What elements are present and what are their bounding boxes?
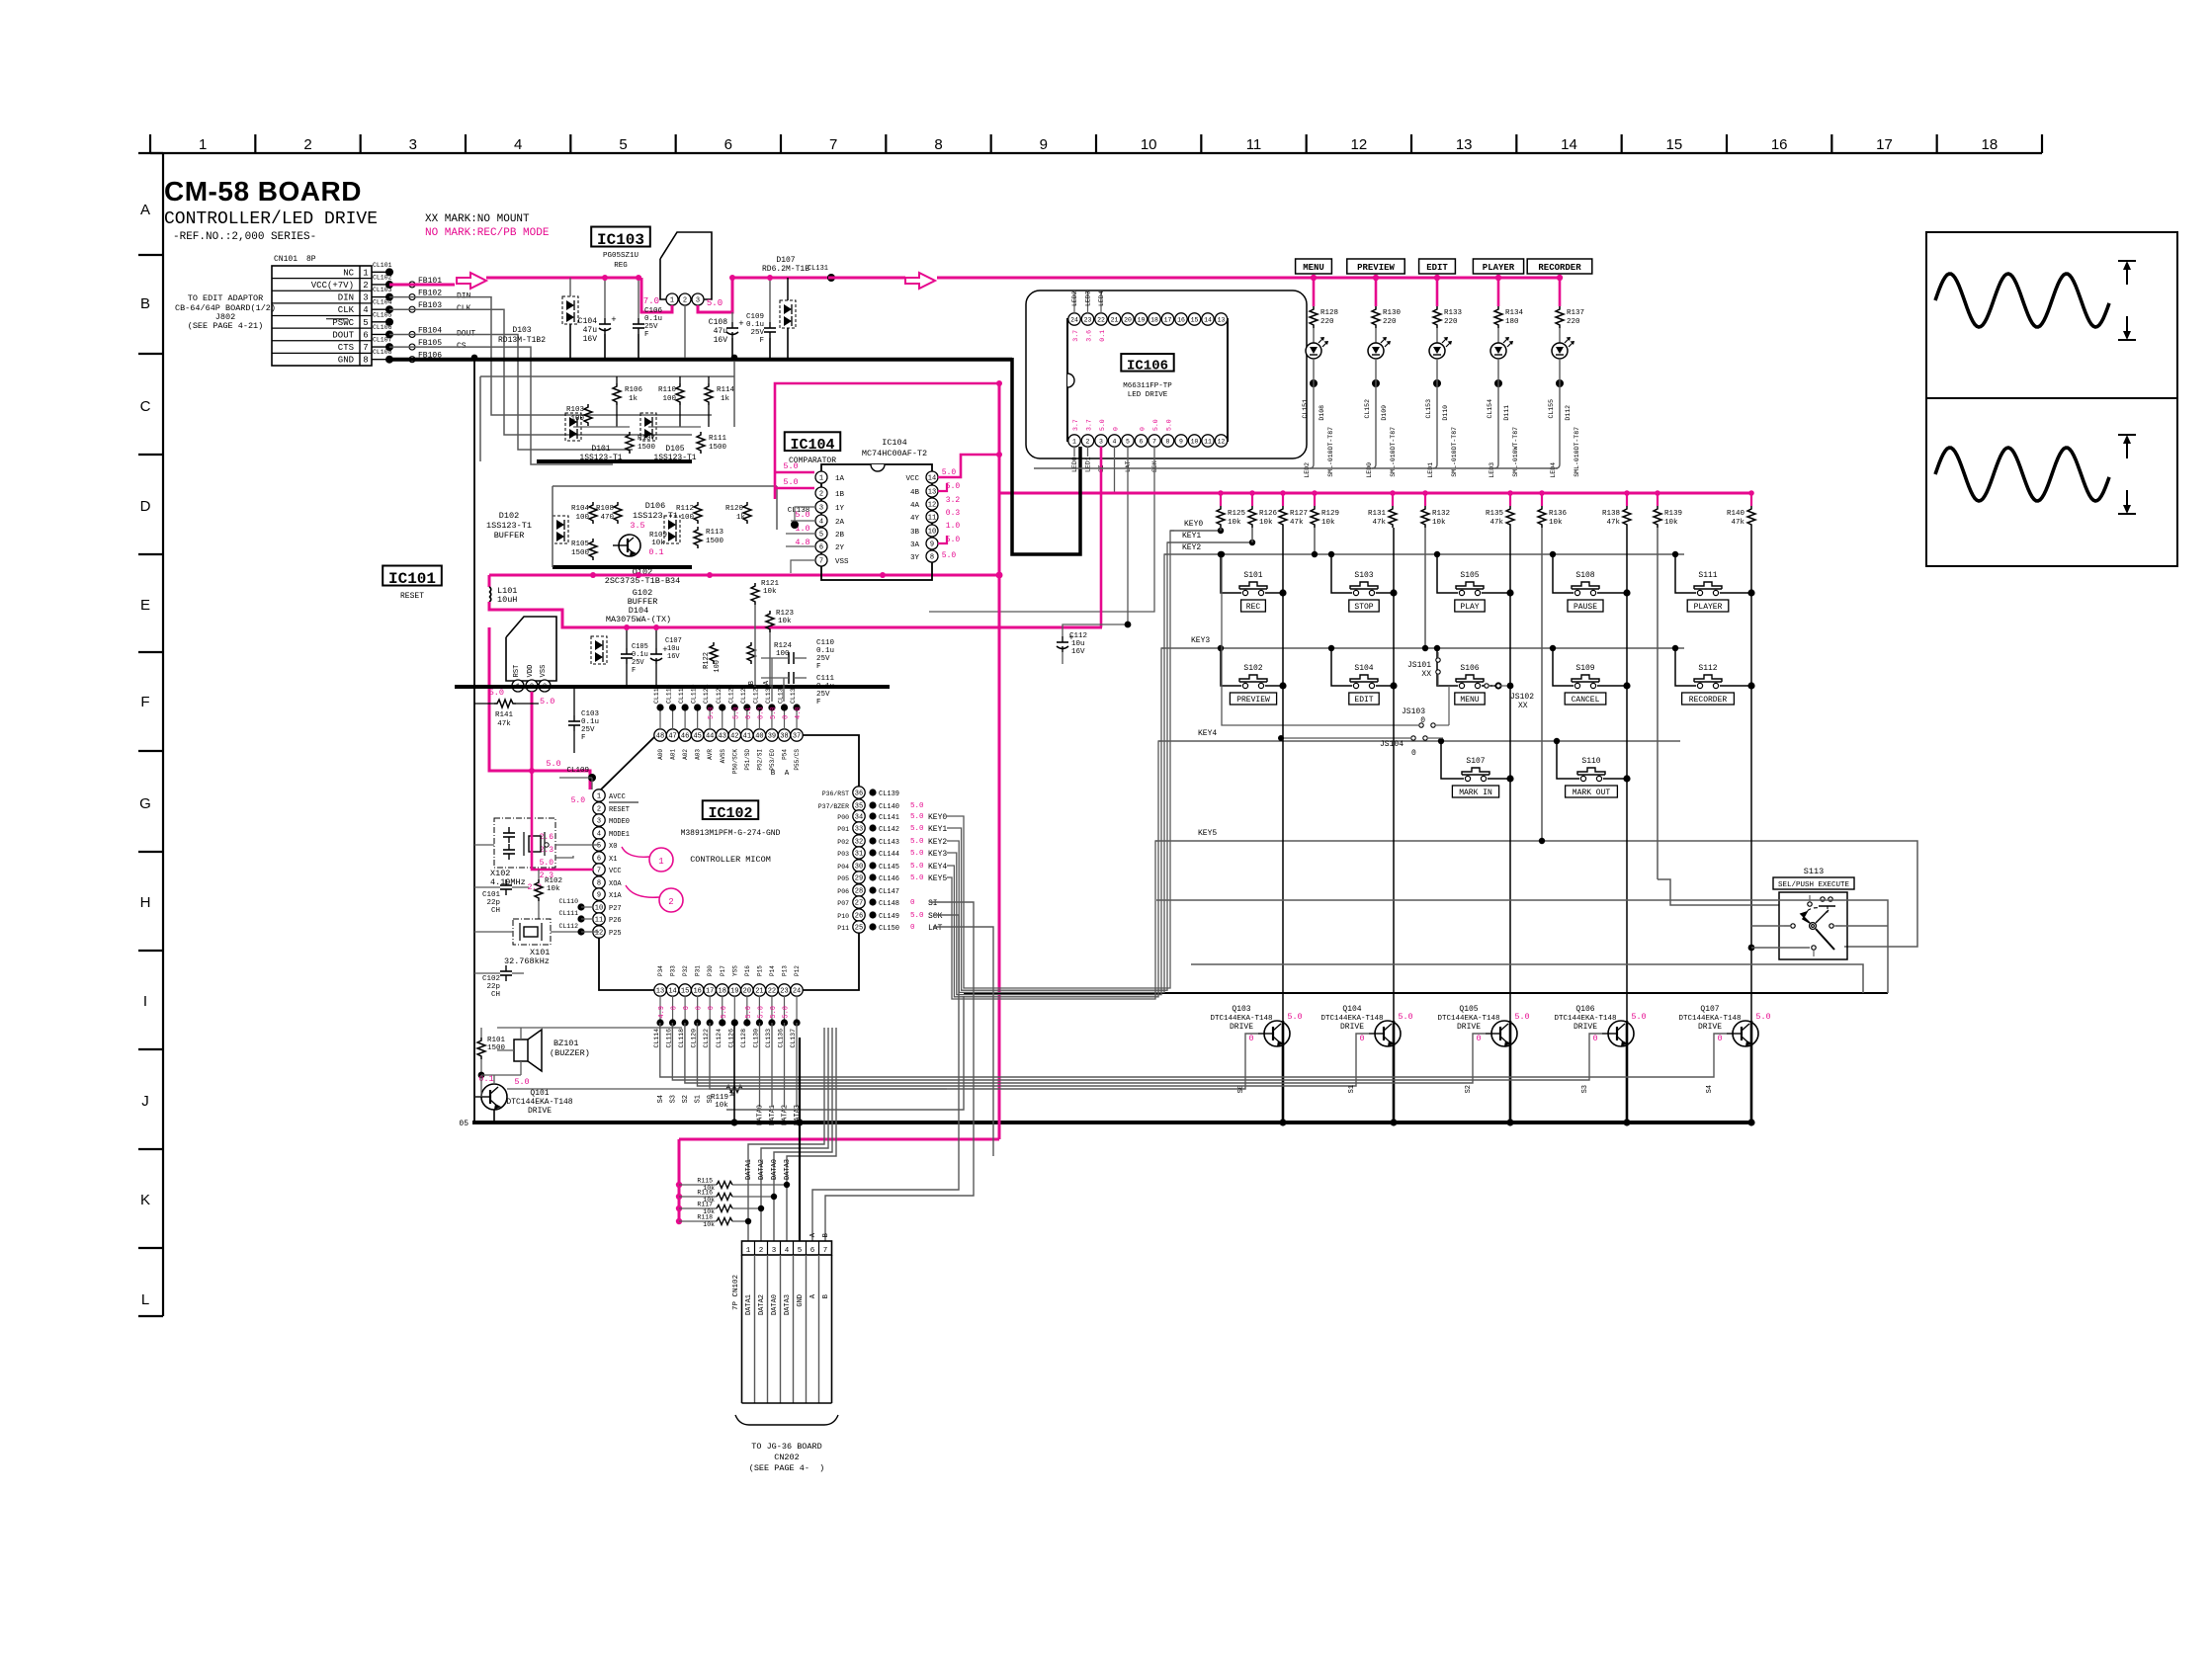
- svg-text:6: 6: [1140, 438, 1144, 445]
- svg-text:F: F: [581, 734, 586, 742]
- svg-text:X1: X1: [609, 856, 617, 864]
- transistor Q103: [1210, 1005, 1302, 1046]
- svg-text:13: 13: [928, 489, 936, 497]
- svg-text:5.0: 5.0: [540, 697, 554, 706]
- wires DATA verticals: [730, 1023, 830, 1241]
- svg-text:LED0: LED0: [1366, 462, 1373, 478]
- svg-text:P32: P32: [682, 965, 689, 976]
- svg-text:0.1u: 0.1u: [816, 647, 834, 655]
- svg-text:0.1: 0.1: [745, 706, 753, 719]
- switch S106 MENU: [1434, 645, 1502, 705]
- LED column MENU: [1296, 259, 1332, 274]
- capacitor C108: [709, 312, 744, 358]
- svg-text:25: 25: [855, 925, 863, 933]
- resistor R134: [1494, 306, 1524, 328]
- svg-text:CL134: CL134: [778, 684, 785, 704]
- svg-text:CL111: CL111: [558, 910, 578, 917]
- label G102 buffer: [628, 588, 658, 607]
- IC102 pin 35: [818, 799, 924, 811]
- svg-text:2Y: 2Y: [835, 544, 845, 552]
- svg-text:+: +: [738, 319, 743, 329]
- svg-text:X0: X0: [609, 843, 617, 851]
- svg-text:P26: P26: [609, 917, 622, 925]
- svg-text:3B: 3B: [910, 529, 920, 537]
- svg-text:CL144: CL144: [879, 851, 899, 859]
- svg-text:0.1: 0.1: [648, 547, 663, 557]
- wire VCC magenta pin7: [532, 771, 593, 870]
- svg-text:LED4: LED4: [1550, 462, 1557, 478]
- svg-text:A00: A00: [657, 749, 664, 760]
- IC102 pin 43: [716, 684, 728, 763]
- svg-text:46: 46: [681, 733, 689, 741]
- svg-text:(BUZZER): (BUZZER): [550, 1048, 590, 1058]
- svg-text:21: 21: [755, 988, 763, 996]
- svg-text:5.0: 5.0: [1631, 1012, 1646, 1022]
- ferrite bead FB104: [409, 326, 475, 338]
- wire buffer sides: [552, 486, 553, 567]
- svg-text:SML-010DT-T87: SML-010DT-T87: [1390, 427, 1397, 477]
- svg-text:R112: R112: [676, 505, 694, 513]
- svg-text:R135: R135: [1486, 510, 1504, 518]
- wire cluster mid: [573, 426, 630, 428]
- svg-text:XX MARK:NO MOUNT: XX MARK:NO MOUNT: [425, 213, 530, 225]
- svg-text:P11: P11: [837, 925, 849, 932]
- svg-text:CL154: CL154: [1487, 399, 1493, 419]
- wire 7.0 in: [641, 278, 672, 312]
- svg-text:YSS: YSS: [731, 965, 738, 976]
- svg-text:2: 2: [683, 297, 687, 305]
- svg-text:4: 4: [819, 519, 823, 527]
- IC104 pin 4: [815, 515, 845, 527]
- thick gnd elbow: [1012, 358, 1080, 554]
- svg-text:AVCC: AVCC: [609, 793, 626, 801]
- svg-text:P50/SCK: P50/SCK: [731, 749, 738, 775]
- svg-text:DATA2: DATA2: [758, 1159, 766, 1180]
- svg-text:R141: R141: [495, 711, 514, 719]
- svg-text:DRIVE: DRIVE: [1457, 1023, 1481, 1032]
- svg-text:SML-010DT-T87: SML-010DT-T87: [1574, 427, 1580, 477]
- svg-text:NO MARK:REC/PB MODE: NO MARK:REC/PB MODE: [425, 227, 550, 239]
- svg-text:3.7: 3.7: [1072, 330, 1079, 342]
- svg-text:7P CN102: 7P CN102: [732, 1275, 740, 1310]
- node CL110: [558, 898, 593, 911]
- svg-text:RD13M-T1B2: RD13M-T1B2: [498, 336, 546, 345]
- IC102 pin 12: [593, 926, 622, 938]
- svg-text:10k: 10k: [763, 588, 777, 596]
- svg-text:3: 3: [696, 297, 700, 305]
- svg-text:MODE0: MODE0: [609, 818, 630, 826]
- IC102 pin 46: [678, 684, 691, 759]
- magenta rail B: [489, 602, 1102, 627]
- svg-text:CL113: CL113: [653, 684, 660, 704]
- svg-text:F: F: [816, 663, 821, 671]
- svg-text:CL151: CL151: [1302, 399, 1309, 419]
- svg-text:20: 20: [743, 988, 751, 996]
- svg-text:9: 9: [597, 892, 601, 900]
- svg-text:DATA1: DATA1: [745, 1159, 753, 1180]
- svg-text:2B: 2B: [835, 532, 845, 540]
- svg-text:17: 17: [1876, 136, 1893, 153]
- IC103 subtitle: [603, 252, 638, 270]
- svg-text:44: 44: [706, 733, 714, 741]
- svg-text:CN101: CN101: [274, 255, 298, 264]
- svg-text:R128: R128: [1320, 309, 1338, 317]
- connector note: [749, 1442, 825, 1473]
- svg-text:EDIT: EDIT: [1354, 696, 1373, 705]
- svg-text:D106: D106: [645, 501, 665, 511]
- svg-text:0: 0: [683, 1006, 691, 1010]
- node CL138: [788, 507, 814, 529]
- IC103 pin 2: [679, 293, 691, 305]
- IC106 pin 24: [1068, 313, 1080, 325]
- svg-text:6: 6: [597, 856, 601, 864]
- svg-text:D102: D102: [499, 511, 519, 521]
- IC104 pin 10: [910, 525, 938, 537]
- IC102 pin 3: [593, 814, 630, 826]
- wire column short: [1312, 528, 1779, 905]
- svg-text:CL147: CL147: [879, 888, 899, 896]
- svg-text:22p: 22p: [486, 983, 500, 991]
- svg-text:0: 0: [671, 1006, 679, 1010]
- wire column x1646: [1626, 528, 1628, 1021]
- IC106 bottom pin labels: [1071, 419, 1173, 472]
- IC102 pin 19: [727, 965, 740, 1048]
- svg-text:25V: 25V: [644, 323, 658, 331]
- svg-text:5.0: 5.0: [732, 706, 740, 719]
- svg-text:8: 8: [1166, 438, 1170, 445]
- wire RECORDER drop: [1557, 275, 1563, 306]
- wire SI magenta: [1100, 447, 1103, 627]
- svg-text:C102: C102: [482, 975, 500, 983]
- svg-text:XOA: XOA: [609, 880, 622, 888]
- svg-text:2: 2: [363, 281, 368, 291]
- wire IC103 pin2 gnd: [684, 305, 686, 358]
- IC106 pin 6: [1135, 435, 1147, 447]
- svg-text:5.0: 5.0: [910, 838, 924, 846]
- ferrite bead FB106: [409, 352, 442, 363]
- thick ground row F: [455, 685, 890, 689]
- svg-text:1Y: 1Y: [835, 505, 845, 513]
- svg-text:45: 45: [693, 733, 701, 741]
- switch S104 EDIT: [1328, 645, 1398, 705]
- svg-text:CL127: CL127: [740, 684, 747, 704]
- svg-text:-REF.NO.:2,000 SERIES-: -REF.NO.:2,000 SERIES-: [173, 231, 316, 243]
- svg-text:A02: A02: [682, 749, 689, 760]
- svg-text:3.5: 3.5: [630, 521, 644, 531]
- svg-text:M66311FP-TP: M66311FP-TP: [1123, 382, 1172, 390]
- svg-text:R129: R129: [1321, 510, 1339, 518]
- wire y976: [1191, 964, 1863, 993]
- IC102 label: [703, 800, 759, 819]
- svg-text:P27: P27: [609, 905, 622, 913]
- svg-text:15: 15: [1191, 316, 1199, 323]
- svg-text:I: I: [143, 993, 147, 1010]
- svg-text:5: 5: [597, 843, 601, 851]
- svg-text:22: 22: [1097, 316, 1105, 323]
- svg-text:D101: D101: [591, 445, 610, 454]
- svg-text:36: 36: [855, 790, 863, 798]
- svg-text:VCC: VCC: [609, 868, 622, 875]
- svg-text:KEY4: KEY4: [1198, 729, 1217, 738]
- svg-text:CL115: CL115: [666, 684, 673, 704]
- svg-text:10k: 10k: [1228, 519, 1241, 527]
- wire KEY5 route: [947, 841, 1159, 999]
- svg-text:0: 0: [783, 715, 791, 719]
- svg-text:IC106: IC106: [1127, 358, 1168, 374]
- svg-text:8: 8: [934, 136, 942, 153]
- svg-text:DTC144EKA-T148: DTC144EKA-T148: [506, 1098, 572, 1107]
- svg-text:0: 0: [1411, 749, 1416, 758]
- wire cluster sides: [479, 376, 481, 461]
- svg-text:25V: 25V: [750, 329, 764, 337]
- svg-text:5.0: 5.0: [910, 813, 924, 821]
- svg-text:5.0: 5.0: [910, 825, 924, 833]
- wire return y1123: [726, 996, 964, 1110]
- svg-text:PLAY: PLAY: [1460, 603, 1479, 612]
- resistor R140: [1727, 490, 1755, 528]
- svg-text:DTC144EKA-T148: DTC144EKA-T148: [1210, 1015, 1272, 1023]
- svg-text:1: 1: [1072, 438, 1076, 445]
- note NO MOUNT: [425, 213, 550, 239]
- svg-text:9: 9: [930, 541, 934, 549]
- wire collector Q104: [1390, 1021, 1397, 1126]
- svg-text:PG05SZ1U: PG05SZ1U: [603, 252, 638, 260]
- label R109: [649, 532, 667, 547]
- svg-text:CL139: CL139: [879, 790, 899, 798]
- svg-text:Q105: Q105: [1459, 1005, 1478, 1014]
- crystal X102: [474, 818, 599, 887]
- svg-text:X1A: X1A: [609, 892, 622, 900]
- svg-text:DTC144EKA-T148: DTC144EKA-T148: [1437, 1015, 1499, 1023]
- wire column x1410: [1393, 528, 1395, 1021]
- wire A route: [812, 915, 959, 1241]
- svg-text:DATA0: DATA0: [771, 1294, 779, 1315]
- svg-text:XX: XX: [1421, 670, 1431, 679]
- node CL108: [372, 349, 393, 364]
- IC104 magenta pins right: [938, 455, 999, 560]
- svg-text:5.0: 5.0: [1099, 419, 1106, 431]
- D104 pin 2: [526, 680, 538, 692]
- svg-text:LED0: LED0: [1071, 457, 1078, 472]
- svg-text:39: 39: [768, 733, 776, 741]
- svg-text:S112: S112: [1698, 664, 1717, 673]
- S113 label: [1773, 867, 1854, 889]
- diode D101: [565, 413, 623, 462]
- transistor Q102: [613, 521, 664, 557]
- IC102 pin 26: [837, 909, 942, 921]
- wire GND bus: [389, 358, 1012, 362]
- svg-text:5.0: 5.0: [783, 461, 798, 471]
- IC106 pin 16: [1175, 313, 1187, 325]
- regulator IC103 body: [660, 232, 712, 299]
- svg-text:18: 18: [1150, 316, 1158, 323]
- wire LED2: [1304, 359, 1314, 478]
- svg-text:3: 3: [1099, 438, 1103, 445]
- IC106 pin 10: [1188, 435, 1200, 447]
- svg-text:32.768kHz: 32.768kHz: [504, 956, 550, 966]
- svg-text:S109: S109: [1575, 664, 1594, 673]
- label B A under pins: [771, 770, 790, 778]
- svg-text:7: 7: [829, 136, 837, 153]
- svg-text:CL150: CL150: [879, 925, 899, 933]
- IC106 pin 2: [1081, 435, 1093, 447]
- resistor R127: [1279, 490, 1308, 528]
- svg-text:REC: REC: [1246, 603, 1261, 612]
- svg-text:DATA2: DATA2: [758, 1294, 766, 1315]
- switch S107 MARK IN: [1438, 738, 1514, 797]
- svg-text:15: 15: [681, 988, 689, 996]
- svg-text:16: 16: [1771, 136, 1788, 153]
- svg-text:M38913M1PFM-G-274-GND: M38913M1PFM-G-274-GND: [681, 829, 781, 838]
- note to edit adaptor: [175, 293, 276, 331]
- svg-text:P37/BZER: P37/BZER: [818, 803, 849, 810]
- IC104 pin 8: [910, 550, 938, 562]
- IC102 pin 44: [703, 684, 716, 759]
- svg-text:CL146: CL146: [879, 875, 899, 883]
- svg-text:S4: S4: [657, 1095, 665, 1103]
- svg-text:Q104: Q104: [1342, 1005, 1361, 1014]
- svg-text:4A: 4A: [910, 502, 920, 510]
- svg-text:R119: R119: [711, 1094, 728, 1102]
- svg-text:CL143: CL143: [879, 839, 899, 847]
- resistor R141: [474, 700, 539, 728]
- IC106 group outline: [1026, 291, 1307, 458]
- IC106 pin 7: [1149, 435, 1160, 447]
- svg-text:14: 14: [1561, 136, 1577, 153]
- svg-text:1.0: 1.0: [946, 522, 961, 531]
- svg-text:10k: 10k: [1549, 519, 1563, 527]
- svg-text:RST: RST: [513, 665, 521, 678]
- svg-text:F: F: [140, 694, 149, 710]
- svg-text:S107: S107: [1466, 757, 1485, 766]
- IC103 label: [591, 227, 650, 247]
- IC102 pin 22: [765, 965, 778, 1048]
- node CL104: [372, 299, 393, 314]
- svg-text:CL137: CL137: [790, 1029, 797, 1048]
- resistor R124: [747, 642, 793, 664]
- svg-text:R116: R116: [697, 1190, 713, 1197]
- svg-text:CL123: CL123: [716, 684, 723, 704]
- svg-text:12: 12: [595, 930, 603, 938]
- svg-text:C105: C105: [632, 643, 648, 651]
- svg-text:10u: 10u: [1071, 640, 1085, 648]
- svg-text:0: 0: [1359, 1034, 1364, 1043]
- svg-text:IC102: IC102: [708, 805, 752, 822]
- svg-text:D103: D103: [512, 326, 531, 335]
- svg-text:S110: S110: [1581, 757, 1600, 766]
- wire VCC continue: [486, 277, 641, 280]
- LED column RECORDER: [1527, 259, 1592, 274]
- svg-text:CL130: CL130: [752, 1029, 759, 1048]
- svg-text:NC: NC: [343, 268, 354, 278]
- svg-text:5.0: 5.0: [1166, 419, 1173, 431]
- svg-text:DRIVE: DRIVE: [1230, 1023, 1253, 1032]
- svg-text:DRIVE: DRIVE: [1574, 1023, 1597, 1032]
- vertical bus magenta 5V: [996, 380, 1003, 1139]
- svg-text:22p: 22p: [486, 899, 500, 907]
- svg-text:0: 0: [1248, 1034, 1253, 1043]
- svg-text:GND: GND: [338, 356, 354, 366]
- IC102 pin 4: [593, 827, 630, 839]
- svg-text:0: 0: [708, 1006, 716, 1010]
- svg-text:2: 2: [668, 897, 673, 907]
- IC102 pin 34: [837, 810, 947, 822]
- resistor R103: [566, 404, 592, 426]
- svg-text:CL119: CL119: [691, 684, 698, 704]
- svg-text:CL136: CL136: [778, 1029, 785, 1048]
- wire LED4: [1550, 359, 1560, 478]
- IC102 pin 24: [790, 965, 803, 1048]
- svg-text:R113: R113: [706, 529, 724, 537]
- svg-text:4Y: 4Y: [910, 515, 920, 523]
- svg-text:DTC144EKA-T148: DTC144EKA-T148: [1554, 1015, 1616, 1023]
- svg-text:16: 16: [693, 988, 701, 996]
- svg-text:RECORDER: RECORDER: [1689, 696, 1728, 705]
- resistor R105: [571, 539, 597, 560]
- svg-text:14: 14: [928, 475, 936, 483]
- svg-text:16V: 16V: [714, 336, 728, 345]
- svg-text:C108: C108: [709, 318, 727, 327]
- IC102 pin 30: [837, 860, 947, 872]
- IC106 pin 18: [1149, 313, 1160, 325]
- svg-text:CL120: CL120: [691, 1029, 698, 1048]
- svg-text:5: 5: [819, 532, 823, 540]
- svg-text:S111: S111: [1698, 571, 1717, 580]
- zener pair D: [591, 636, 607, 664]
- svg-text:D110: D110: [1442, 405, 1449, 421]
- node CL112: [558, 923, 593, 936]
- svg-text:P10: P10: [837, 913, 849, 920]
- svg-text:AVR: AVR: [707, 749, 714, 760]
- svg-text:CL110: CL110: [558, 898, 578, 905]
- svg-text:43: 43: [719, 733, 726, 741]
- svg-text:J: J: [141, 1093, 149, 1110]
- svg-text:2SC3735-T1B-B34: 2SC3735-T1B-B34: [605, 576, 681, 586]
- svg-text:1: 1: [363, 268, 368, 278]
- wire key return: [964, 992, 1888, 994]
- IC102 pin 48: [653, 684, 666, 759]
- svg-text:P13: P13: [782, 965, 789, 976]
- svg-text:25V: 25V: [816, 691, 830, 699]
- svg-text:0.1u: 0.1u: [816, 683, 834, 691]
- IC104 pin 14: [905, 471, 938, 483]
- IC102 pin 10: [593, 901, 622, 913]
- svg-text:15: 15: [1665, 136, 1682, 153]
- svg-text:31: 31: [855, 851, 863, 859]
- svg-text:220: 220: [1567, 318, 1580, 326]
- svg-text:P51/SD: P51/SD: [744, 749, 751, 771]
- svg-text:5.0: 5.0: [571, 796, 586, 805]
- svg-text:CL108: CL108: [373, 349, 392, 356]
- connector CN102: [732, 1241, 832, 1403]
- svg-text:0: 0: [1476, 1034, 1481, 1043]
- resistor R120: [725, 502, 751, 524]
- svg-text:8P: 8P: [306, 255, 316, 264]
- wire KEY4: [1158, 729, 1680, 741]
- svg-text:AVSS: AVSS: [720, 749, 726, 764]
- svg-text:1500: 1500: [571, 549, 590, 557]
- switch S108 PAUSE: [1550, 551, 1631, 612]
- svg-text:29: 29: [855, 875, 863, 883]
- svg-text:14: 14: [668, 988, 676, 996]
- IC102 pin 23: [778, 965, 791, 1048]
- resistor R102: [535, 870, 562, 919]
- wire LAT route: [933, 927, 993, 1156]
- resistor R112: [676, 502, 702, 524]
- svg-text:3: 3: [772, 1247, 777, 1255]
- IC102 pin 15: [678, 965, 691, 1048]
- svg-text:CL155: CL155: [1548, 399, 1555, 419]
